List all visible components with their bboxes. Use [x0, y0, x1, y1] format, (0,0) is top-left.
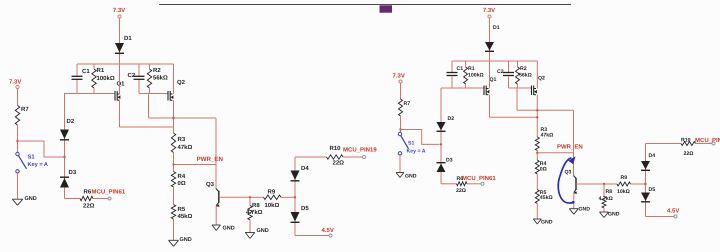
diode D1: [115, 43, 124, 53]
svg-text:MCU_PIN61: MCU_PIN61: [462, 175, 496, 182]
wire to R10: [295, 156, 327, 158]
wire S1 to ground: [17, 173, 19, 199]
svg-text:7.3V: 7.3V: [113, 7, 125, 14]
svg-text:R9: R9: [268, 189, 276, 196]
wire branch to diode junction: [401, 130, 440, 145]
ground under R5: [169, 239, 179, 241]
wire Q1 source horizontal: [120, 126, 174, 128]
svg-text:100kΩ: 100kΩ: [468, 73, 484, 79]
svg-text:R7: R7: [21, 106, 29, 113]
capacitor C2: [508, 61, 510, 72]
capacitor C2: [138, 64, 140, 76]
resistor R3 47kΩ: [535, 137, 539, 151]
svg-text:MCU_PIN19: MCU_PIN19: [695, 137, 720, 144]
svg-text:GND: GND: [223, 226, 235, 232]
wire to R10: [646, 143, 682, 145]
svg-text:S1: S1: [28, 154, 36, 161]
svg-text:R10: R10: [681, 138, 691, 144]
svg-text:Q3: Q3: [206, 181, 215, 188]
resistor R8 4.7kΩ: [603, 183, 605, 185]
svg-text:56kΩ: 56kΩ: [519, 73, 532, 79]
wire to R7: [400, 83, 402, 99]
wire junction branch: [536, 152, 538, 154]
svg-text:Q1: Q1: [117, 81, 126, 88]
wire Q3 emitter to ground: [573, 193, 575, 209]
svg-text:R4: R4: [178, 173, 186, 180]
resistor R10 22Ω: [327, 155, 344, 159]
wire Q1 source down: [489, 95, 491, 118]
wire junction PWR_EN branch: [172, 163, 174, 165]
svg-text:4.5V: 4.5V: [667, 208, 679, 215]
ground Q3: [569, 208, 578, 210]
wire Q2 source down to R3: [536, 95, 538, 137]
svg-text:R9: R9: [621, 175, 628, 181]
svg-text:56kΩ: 56kΩ: [153, 75, 168, 82]
svg-text:22Ω: 22Ω: [456, 188, 466, 194]
ground under R5: [533, 218, 541, 220]
svg-text:D2: D2: [67, 118, 75, 125]
wire Q1 drain: [119, 64, 121, 94]
wire PWR_EN vertical: [215, 118, 217, 189]
ground under R8: [245, 232, 255, 234]
svg-text:GND: GND: [405, 174, 417, 180]
mosfet Q2: [167, 91, 169, 101]
svg-text:22Ω: 22Ω: [83, 202, 95, 209]
wire Q2 source to R3: [173, 100, 175, 133]
wire horizontal upper: [517, 109, 574, 111]
svg-text:D4: D4: [649, 153, 656, 159]
svg-text:D1: D1: [493, 25, 500, 31]
svg-text:C1: C1: [457, 66, 464, 72]
svg-text:7.3V: 7.3V: [393, 73, 405, 80]
svg-text:10kΩ: 10kΩ: [617, 189, 630, 195]
svg-text:PWR_EN: PWR_EN: [197, 156, 224, 163]
svg-text:7.3V: 7.3V: [9, 79, 21, 86]
resistor R9 10kΩ (horizontal): [604, 183, 617, 185]
ground Q3: [212, 224, 221, 226]
svg-text:D3: D3: [69, 169, 77, 176]
capacitor C1: [76, 64, 78, 76]
svg-text:S1: S1: [408, 141, 414, 147]
svg-text:10kΩ: 10kΩ: [265, 202, 280, 209]
wire drop from rail 2: [516, 88, 518, 110]
wire R7 to S1: [17, 125, 19, 152]
ground under S1: [396, 172, 404, 174]
wire R7 to S1: [400, 116, 402, 132]
svg-text:7.3V: 7.3V: [483, 7, 495, 14]
ground under R8: [600, 211, 609, 213]
svg-text:GND: GND: [608, 212, 620, 218]
resistor R5 45kΩ: [171, 205, 175, 220]
svg-text:GND: GND: [25, 196, 37, 202]
resistor R10 22Ω: [681, 142, 696, 146]
mosfet Q2: [531, 86, 533, 96]
wire top rail: [452, 60, 538, 62]
capacitor C1: [451, 61, 453, 72]
resistor R6 22Ω: [65, 198, 81, 200]
svg-text:C2: C2: [128, 72, 136, 79]
wire Q1 drain: [489, 61, 491, 89]
svg-text:D5: D5: [649, 187, 656, 193]
svg-text:GND: GND: [180, 237, 192, 243]
blue annotation ellipse around Q3: [558, 158, 573, 203]
svg-text:R3: R3: [178, 136, 186, 143]
svg-text:R1: R1: [97, 67, 105, 74]
svg-text:Q3: Q3: [565, 170, 572, 176]
wire to 4.5V terminal: [295, 235, 329, 237]
diode D2: [64, 130, 66, 199]
diode D4: [291, 171, 300, 181]
svg-text:D2: D2: [448, 116, 455, 122]
wire drop from R2 rail: [148, 94, 150, 119]
svg-text:PWR_EN: PWR_EN: [557, 144, 583, 151]
svg-text:47kΩ: 47kΩ: [178, 144, 193, 151]
svg-text:D5: D5: [301, 205, 309, 212]
resistor R8 4.7kΩ: [249, 196, 251, 198]
resistor R2 56kΩ: [149, 64, 151, 69]
svg-text:GND: GND: [541, 219, 553, 225]
svg-text:0Ω: 0Ω: [540, 167, 547, 173]
resistor R4 0Ω: [535, 160, 539, 174]
svg-text:R7: R7: [404, 101, 411, 107]
svg-text:Q1: Q1: [490, 77, 497, 83]
svg-text:R8: R8: [606, 189, 613, 195]
svg-text:R8: R8: [252, 202, 260, 209]
svg-text:R1: R1: [468, 66, 475, 72]
wire S1 to ground: [399, 155, 401, 172]
wire drop to D2: [440, 88, 442, 122]
wire gate rail 2: [139, 93, 168, 95]
svg-text:4.5V: 4.5V: [322, 227, 334, 234]
wire gate rail 1: [64, 93, 115, 95]
svg-text:R2: R2: [520, 66, 527, 72]
mosfet Q1: [114, 91, 116, 101]
wire gate rail 1: [441, 87, 484, 89]
wire Q2 drain: [536, 61, 538, 89]
wire D4/D5 vertical: [294, 157, 296, 236]
diode D3: [437, 162, 446, 164]
mosfet Q1: [483, 86, 485, 96]
resistor R7: [15, 106, 19, 126]
svg-text:C2: C2: [497, 69, 504, 75]
svg-text:GND: GND: [257, 228, 269, 234]
wire Q1 source horizontal: [490, 116, 538, 118]
wire gate rail 2: [509, 87, 532, 89]
resistor R1 100kΩ: [93, 64, 95, 69]
svg-text:C1: C1: [82, 68, 90, 75]
wire top rail: [77, 63, 174, 65]
svg-text:0Ω: 0Ω: [178, 180, 186, 187]
svg-text:R5: R5: [178, 206, 186, 213]
svg-text:R10: R10: [330, 145, 342, 152]
resistor R4 0Ω: [171, 172, 175, 188]
diode D2: [440, 122, 442, 184]
diode D4: [641, 161, 650, 170]
svg-text:R2: R2: [153, 67, 161, 74]
wire Q3 base: [576, 183, 604, 185]
purple marker box: [380, 5, 393, 12]
wire branch to diode junction: [18, 141, 64, 157]
resistor R5 45kΩ: [535, 190, 539, 204]
svg-text:45kΩ: 45kΩ: [540, 195, 553, 201]
wire Q3 emitter to ground: [215, 206, 217, 225]
wire D4/D5 vertical: [645, 144, 647, 217]
svg-text:47kΩ: 47kΩ: [541, 133, 554, 139]
svg-text:Q2: Q2: [177, 79, 186, 86]
resistor R1 100kΩ: [465, 61, 467, 67]
svg-text:GND: GND: [579, 207, 591, 213]
svg-text:MCU_PIN61: MCU_PIN61: [92, 188, 126, 195]
resistor R2 56kΩ: [517, 61, 519, 67]
wire Q3 base: [219, 196, 250, 198]
wire drop to D2: [64, 93, 66, 130]
svg-text:Key = A: Key = A: [28, 162, 48, 168]
resistor R7: [399, 99, 403, 116]
svg-text:Q2: Q2: [538, 76, 545, 82]
resistor R6 22Ω: [441, 183, 457, 185]
svg-text:D3: D3: [446, 158, 453, 164]
svg-text:22Ω: 22Ω: [333, 160, 345, 167]
svg-text:D4: D4: [301, 165, 309, 172]
wire Q1 source down: [119, 100, 121, 127]
svg-text:45kΩ: 45kΩ: [178, 213, 193, 220]
wire 7.3V to D1: [119, 18, 121, 64]
wire PWR_EN vertical: [573, 110, 575, 175]
diode D5: [641, 193, 650, 202]
svg-text:MCU_PIN19: MCU_PIN19: [343, 147, 377, 154]
diode D1: [485, 42, 494, 51]
switch S1 Key = A: [16, 152, 19, 155]
svg-text:22Ω: 22Ω: [684, 151, 694, 157]
switch S1 Key = A: [398, 132, 401, 135]
wire Q2 drain: [173, 64, 175, 94]
resistor R3 47kΩ: [171, 133, 175, 153]
wire 7.3V to D1: [489, 18, 491, 61]
svg-text:4.7kΩ: 4.7kΩ: [246, 209, 263, 216]
svg-text:4.7kΩ: 4.7kΩ: [599, 196, 613, 202]
wire horizontal to PWR_EN: [149, 117, 217, 119]
diode D3: [60, 176, 69, 178]
wire to 4.5V terminal: [646, 216, 675, 218]
ground under S1: [12, 198, 23, 200]
wire to R7: [17, 89, 19, 106]
diode D5: [291, 212, 300, 222]
top progress line: [159, 4, 571, 6]
svg-text:Key = A: Key = A: [407, 149, 426, 155]
resistor R9 10kΩ (horizontal): [250, 196, 264, 198]
svg-text:100kΩ: 100kΩ: [97, 75, 115, 82]
svg-text:D1: D1: [124, 35, 132, 42]
